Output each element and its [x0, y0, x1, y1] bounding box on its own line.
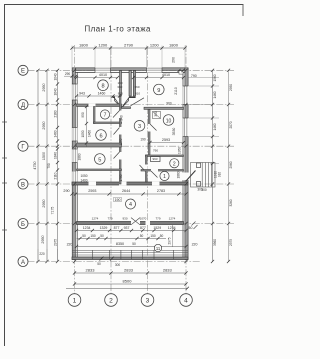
svg-text:1234: 1234 — [83, 226, 91, 230]
veranda dim chain y230.5 — [75, 226, 193, 232]
axis B line — [28, 223, 235, 225]
top dimension row — [64, 43, 187, 78]
room5 bottom wall — [77, 169, 122, 171]
svg-text:1150: 1150 — [119, 138, 123, 145]
external stairs platform — [191, 163, 216, 188]
axis circle 1 — [68, 294, 81, 307]
room circle 6 — [96, 130, 107, 141]
veranda bottom wall — [72, 257, 188, 260]
dim texts above B wall — [92, 217, 176, 221]
svg-text:50: 50 — [97, 262, 101, 266]
svg-text:4750: 4750 — [33, 161, 37, 169]
svg-text:3260: 3260 — [229, 199, 233, 206]
closet box 993 — [151, 157, 161, 162]
left dimension chain B — [41, 69, 55, 263]
label 190 room4 — [114, 198, 122, 202]
svg-text:943: 943 — [79, 91, 85, 95]
window W3 left wall — [72, 84, 78, 100]
svg-text:10: 10 — [166, 118, 172, 124]
veranda mullions — [92, 250, 173, 259]
small vertical dim line veranda — [171, 225, 173, 247]
room circle 7 — [100, 110, 109, 119]
svg-text:1274: 1274 — [169, 217, 176, 221]
svg-text:290: 290 — [65, 72, 71, 76]
svg-text:993: 993 — [152, 157, 157, 161]
svg-text:300: 300 — [197, 188, 203, 192]
svg-text:4010: 4010 — [162, 73, 170, 77]
left dimension chain C — [54, 69, 60, 263]
svg-text:950: 950 — [81, 112, 85, 118]
room circle 5 — [95, 154, 106, 165]
svg-text:1640: 1640 — [54, 88, 58, 95]
vestibule small dims — [117, 81, 140, 96]
right wall inner face line — [182, 72, 184, 259]
svg-text:1460: 1460 — [98, 91, 106, 95]
svg-text:300: 300 — [115, 263, 121, 267]
svg-text:290: 290 — [171, 57, 175, 63]
svg-text:3560: 3560 — [213, 239, 217, 246]
svg-text:2375: 2375 — [229, 239, 233, 246]
svg-text:910: 910 — [218, 172, 222, 178]
vestibule bottom wall stubs — [113, 96, 116, 98]
svg-text:2975: 2975 — [54, 239, 58, 246]
svg-text:2593: 2593 — [88, 189, 96, 193]
svg-text:220: 220 — [67, 243, 73, 247]
svg-text:1460: 1460 — [213, 91, 217, 98]
room circle 8 — [98, 80, 109, 91]
top-right corner notch — [177, 69, 184, 74]
exterior left wall — [72, 68, 78, 260]
svg-text:1050: 1050 — [81, 130, 85, 137]
svg-text:2070: 2070 — [229, 121, 233, 128]
svg-text:2950: 2950 — [42, 121, 46, 129]
svg-text:В: В — [21, 182, 25, 188]
axis circle A — [18, 257, 28, 267]
stair steps — [201, 163, 203, 188]
stair post top — [197, 163, 201, 168]
svg-text:1460: 1460 — [88, 130, 92, 137]
window W5b left wall corridor — [72, 172, 78, 183]
svg-text:1: 1 — [73, 298, 77, 305]
wall on axis V — [72, 182, 188, 186]
svg-text:1529: 1529 — [153, 226, 161, 230]
axis 1 line — [74, 45, 76, 294]
interior walls — [77, 71, 184, 185]
room7 left wall — [94, 107, 96, 124]
svg-text:790: 790 — [191, 74, 197, 78]
svg-text:2833: 2833 — [163, 268, 173, 273]
veranda dim chain y238.5 — [77, 234, 172, 245]
svg-text:2950: 2950 — [229, 84, 233, 91]
svg-text:930: 930 — [122, 217, 127, 221]
top wall inner face line — [72, 71, 188, 73]
svg-text:2950: 2950 — [42, 199, 46, 207]
svg-text:1: 1 — [163, 174, 166, 180]
window W2 top wall — [147, 67, 163, 73]
svg-text:2950: 2950 — [42, 83, 46, 91]
room1 top wall — [141, 169, 184, 178]
svg-text:190: 190 — [115, 198, 121, 202]
svg-text:150: 150 — [90, 234, 96, 238]
room dim chain y194 — [63, 189, 187, 195]
svg-text:8500: 8500 — [123, 278, 133, 283]
axis circle B — [18, 219, 28, 229]
svg-text:1040: 1040 — [54, 73, 58, 80]
svg-text:360: 360 — [134, 85, 139, 89]
svg-text:2593: 2593 — [162, 138, 170, 142]
border frame top — [4, 4, 244, 6]
svg-text:390: 390 — [154, 111, 158, 117]
door leaf room7 — [113, 111, 120, 118]
svg-text:1460: 1460 — [213, 123, 217, 130]
border frame left — [4, 4, 6, 346]
svg-text:50: 50 — [160, 234, 164, 238]
svg-text:5: 5 — [98, 157, 101, 163]
double door leaves hall — [115, 98, 122, 108]
bottom entry ticks — [100, 257, 115, 261]
axis D line — [28, 104, 235, 106]
axis circle E — [18, 65, 28, 75]
door leaf room1 — [151, 171, 158, 178]
veranda front glazing lines — [72, 250, 188, 255]
svg-text:1234: 1234 — [168, 226, 176, 230]
room9 bottom wall — [144, 107, 184, 109]
corridor wall — [113, 97, 122, 185]
svg-text:779: 779 — [107, 217, 112, 221]
room9 interior dim — [132, 73, 185, 79]
svg-text:2: 2 — [109, 298, 113, 305]
axis 4 line — [185, 45, 187, 294]
door leaf room5 — [114, 152, 120, 159]
double door X on B wall — [131, 218, 140, 225]
svg-text:Б: Б — [21, 222, 25, 228]
room circle 9 — [154, 84, 165, 95]
svg-text:1200: 1200 — [98, 43, 108, 48]
svg-text:9: 9 — [157, 88, 160, 94]
page background — [0, 0, 248, 359]
wall on axis G left part — [77, 143, 122, 147]
svg-text:8: 8 — [101, 84, 104, 90]
room7 bottom wall — [94, 122, 122, 124]
axis 2 line — [110, 48, 112, 294]
window W1 top wall — [95, 67, 111, 73]
svg-text:1800: 1800 — [169, 43, 179, 48]
svg-text:2110: 2110 — [54, 172, 58, 179]
svg-text:8350: 8350 — [116, 242, 124, 246]
bottom dimension row 8500 — [73, 278, 188, 285]
room circle 1 — [160, 171, 169, 180]
axis G line — [28, 145, 235, 147]
svg-text:1500: 1500 — [42, 152, 46, 160]
right extension lines — [189, 78, 220, 186]
svg-text:220: 220 — [192, 243, 198, 247]
door gap right wall to stairs — [183, 173, 189, 181]
extension lines bottom-left corner dims — [38, 249, 58, 262]
axis circle 2 — [105, 294, 118, 307]
svg-text:1070: 1070 — [140, 217, 147, 221]
right dimension chain outer — [227, 69, 233, 263]
room8 interior dim — [75, 73, 119, 79]
svg-text:50: 50 — [82, 234, 86, 238]
svg-text:2160: 2160 — [54, 110, 58, 117]
svg-text:4010: 4010 — [99, 73, 107, 77]
svg-text:50: 50 — [132, 242, 136, 246]
room circle 11 — [154, 244, 161, 251]
svg-text:2950: 2950 — [41, 235, 45, 243]
junction ticks on walls — [73, 69, 188, 263]
svg-text:1400: 1400 — [80, 179, 87, 183]
svg-text:2790: 2790 — [124, 43, 134, 48]
svg-text:810: 810 — [135, 92, 140, 96]
room10 dim 2593 — [148, 138, 185, 144]
room2 top wall — [146, 155, 184, 157]
axis circle 4 — [180, 294, 193, 307]
svg-text:2644: 2644 — [122, 189, 130, 193]
axis circle 3 — [141, 294, 154, 307]
svg-text:3: 3 — [138, 124, 141, 130]
svg-text:2: 2 — [173, 161, 176, 167]
svg-text:220: 220 — [39, 252, 45, 256]
svg-text:1274: 1274 — [92, 217, 99, 221]
axis circle V — [18, 179, 28, 189]
door leaf vestibule to room9 — [131, 98, 145, 106]
svg-text:1800: 1800 — [79, 43, 89, 48]
door leaf room10 — [150, 124, 157, 131]
vent box room10 corner — [153, 112, 161, 119]
svg-text:2783: 2783 — [157, 189, 165, 193]
veranda dim chain 8350 — [75, 242, 188, 248]
svg-text:50: 50 — [189, 226, 193, 230]
svg-text:2833: 2833 — [124, 268, 134, 273]
border fold ticks — [2, 122, 7, 230]
svg-text:1860: 1860 — [78, 153, 82, 160]
bottom leader line to axis circles — [66, 287, 189, 290]
svg-text:790: 790 — [153, 148, 158, 152]
svg-text:1560: 1560 — [213, 74, 217, 81]
room circle 10 — [163, 115, 174, 126]
vestibule left wall — [120, 71, 122, 97]
svg-text:50: 50 — [100, 234, 104, 238]
door leaf room6 — [114, 128, 120, 135]
svg-text:2975: 2975 — [167, 237, 171, 244]
room8 lower dim — [75, 91, 121, 97]
svg-text:Е: Е — [21, 69, 25, 75]
svg-text:А: А — [21, 260, 25, 266]
window W6 right wall — [183, 86, 189, 105]
svg-text:1200: 1200 — [150, 43, 160, 48]
svg-text:6: 6 — [99, 133, 102, 139]
room3-room10 divider — [148, 110, 157, 156]
svg-text:960: 960 — [166, 101, 172, 105]
svg-text:360: 360 — [117, 85, 122, 89]
svg-text:План 1-го этажа: План 1-го этажа — [85, 25, 152, 34]
room circle 4 — [126, 199, 136, 209]
svg-text:4: 4 — [184, 298, 188, 305]
svg-text:937: 937 — [124, 226, 130, 230]
axis lines group — [28, 45, 235, 294]
svg-text:1050: 1050 — [80, 174, 87, 178]
interior vertical dim chain rooms 6-7 — [81, 105, 88, 147]
svg-text:Д: Д — [21, 103, 25, 109]
wall on axis B (veranda back) — [77, 218, 184, 225]
axis circle D — [18, 100, 28, 110]
axis V line — [28, 183, 235, 185]
left wall inner face line — [76, 72, 78, 259]
svg-text:877: 877 — [114, 226, 120, 230]
room circle 2 — [170, 159, 179, 168]
window W7 right wall — [183, 118, 189, 137]
axis circle G — [18, 141, 28, 151]
corridor top wall — [122, 107, 131, 109]
axis A line — [28, 261, 201, 263]
svg-text:190: 190 — [140, 138, 146, 142]
door leaf corridor-room2 — [140, 165, 146, 172]
wall on axis D (room8 bottom) — [77, 104, 122, 107]
svg-text:1460: 1460 — [54, 130, 58, 137]
hatch marks lower right corner — [192, 222, 198, 230]
exterior top wall — [72, 67, 188, 73]
axis E line — [28, 69, 235, 71]
left dimension chain A — [33, 69, 40, 263]
svg-text:1780: 1780 — [119, 174, 123, 181]
svg-text:779: 779 — [155, 217, 160, 221]
svg-text:7175: 7175 — [51, 207, 55, 215]
svg-text:940: 940 — [120, 115, 124, 121]
border frame right stub — [242, 4, 244, 16]
window W5 left wall — [72, 149, 78, 163]
svg-text:7: 7 — [104, 113, 107, 119]
svg-text:290: 290 — [63, 189, 69, 193]
bottom dimension row 2833 — [73, 268, 188, 275]
svg-text:877: 877 — [140, 226, 146, 230]
svg-text:11: 11 — [156, 246, 161, 251]
svg-text:750: 750 — [47, 163, 51, 169]
vent shaft wall a — [129, 71, 131, 97]
svg-text:3530: 3530 — [172, 128, 176, 136]
svg-text:2110: 2110 — [174, 87, 178, 95]
svg-text:50: 50 — [140, 234, 144, 238]
door gap in axis D wall — [89, 104, 96, 107]
svg-text:1860: 1860 — [177, 171, 181, 178]
vent shaft wall b — [133, 71, 135, 97]
svg-text:810: 810 — [118, 92, 123, 96]
svg-text:2833: 2833 — [86, 268, 96, 273]
rooms 1-2 left wall — [140, 155, 148, 182]
svg-text:1950: 1950 — [178, 147, 182, 154]
svg-text:150: 150 — [150, 234, 156, 238]
door leaf to stairs — [186, 171, 196, 182]
right dimension chain inner — [211, 69, 222, 263]
svg-text:3: 3 — [146, 298, 150, 305]
axis 3 line — [147, 48, 149, 294]
window W4 left wall — [72, 128, 78, 142]
svg-text:1329: 1329 — [100, 226, 108, 230]
svg-text:1840: 1840 — [54, 152, 58, 159]
room circle 3 — [134, 121, 145, 132]
stair post bottom — [197, 182, 201, 187]
svg-text:4: 4 — [129, 202, 132, 208]
svg-text:2960: 2960 — [229, 161, 233, 168]
exterior right wall — [183, 68, 196, 260]
